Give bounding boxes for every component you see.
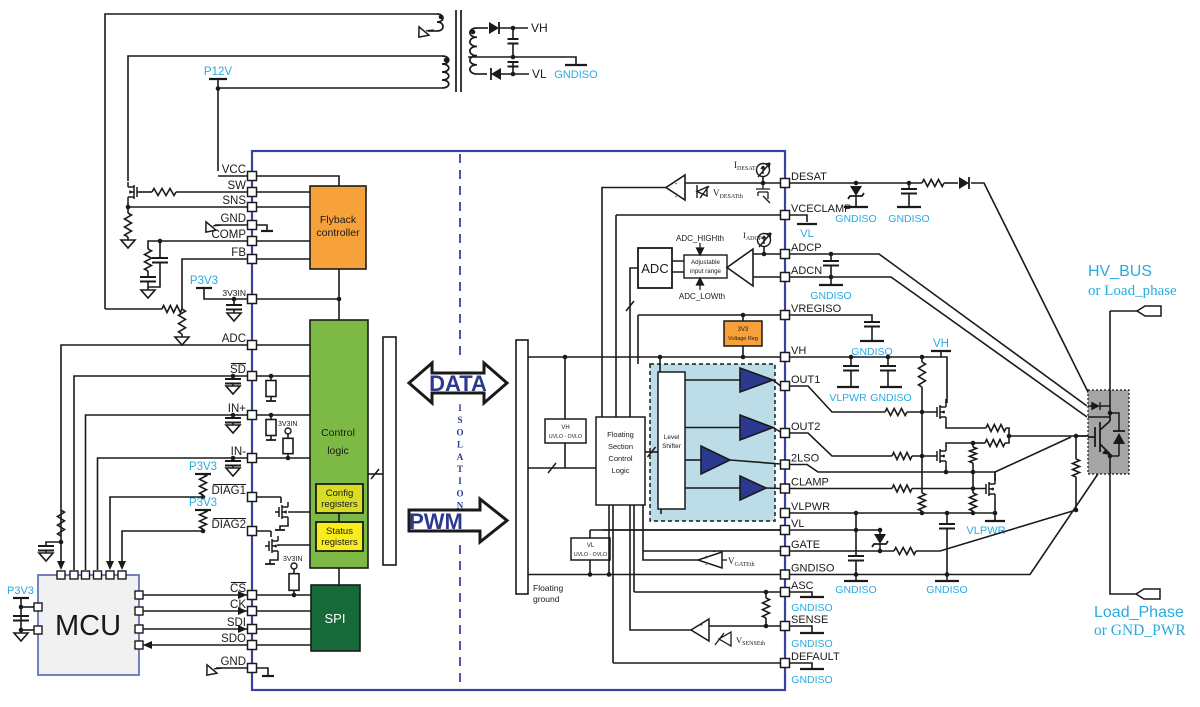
- MCU right pin 1: [135, 591, 143, 599]
- pin GNDISO: [781, 570, 790, 579]
- wire SPI signal: [256, 610, 311, 612]
- wire DEFAULT external: [790, 663, 813, 668]
- tick SD pulldown: [266, 400, 276, 402]
- threshold VGATEth tick: [722, 559, 727, 561]
- pin DIAG1: [248, 493, 257, 502]
- junction IN- pullup: [286, 456, 291, 461]
- wire DESAT comparator to FSCL: [602, 188, 666, 418]
- buffer 2LSO: [701, 446, 730, 474]
- buffer CLAMP: [740, 476, 766, 500]
- wire comp R to C: [147, 271, 149, 277]
- wire: [850, 357, 852, 366]
- pin OUT2: [781, 429, 790, 438]
- arrow ADC_HIGHth: [697, 243, 704, 255]
- bus slash ADC: [626, 301, 634, 311]
- wire VCC to flyback controller: [252, 176, 339, 186]
- junction OUT1: [920, 410, 925, 415]
- wire control logic to interface bar: [368, 473, 383, 475]
- junction VLPWR: [945, 511, 950, 516]
- wire: [45, 551, 47, 554]
- wire DESAT inside: [685, 182, 781, 184]
- junction: [607, 572, 612, 577]
- pin CK: [248, 607, 257, 616]
- wire GND to signal ground: [252, 225, 267, 231]
- wire DIAG2: [252, 530, 271, 532]
- wire VLPWR cap to GNDISO: [946, 533, 948, 575]
- transformer T1 secondary winding: [470, 28, 477, 74]
- wire M2 resistor to gate node: [1005, 436, 1009, 443]
- junction SNS: [126, 205, 131, 210]
- block floating section control logic: [596, 417, 645, 505]
- wire to MCU left pin1: [21, 606, 34, 608]
- junction COMP: [158, 239, 163, 244]
- block VL UVLO: [571, 538, 610, 560]
- wire: [1075, 477, 1077, 510]
- IGBT Q2: [1088, 413, 1110, 454]
- wire GATE comparator to FSCL: [643, 505, 698, 560]
- resistor M2 series: [985, 440, 1005, 447]
- transistor DIAG1 open drain: [279, 502, 288, 522]
- capacitor IN+ filter: [225, 418, 241, 423]
- svg-text:P3V3: P3V3: [189, 461, 217, 473]
- wire secondary center tap to GNDISO: [468, 57, 576, 64]
- junction: [741, 355, 746, 360]
- capacitor IN- filter: [225, 461, 241, 466]
- junction VL UVLO ground: [588, 572, 593, 577]
- wire DESAT to IGBT collector: [971, 183, 1089, 394]
- block status registers: [316, 522, 363, 551]
- junction: [886, 355, 891, 360]
- svg-text:O: O: [456, 427, 463, 437]
- wire ADCN to module: [790, 277, 1088, 417]
- wire SPI signal: [256, 628, 311, 630]
- block flyback controller: [310, 186, 366, 269]
- wire ADC into control logic: [252, 344, 310, 346]
- svg-text:logic: logic: [327, 445, 349, 457]
- wire VH UVLO down: [564, 443, 566, 468]
- svg-text:ADC: ADC: [641, 261, 668, 276]
- resistor OUT1 gate: [885, 409, 907, 416]
- wire to decoupling cap: [233, 299, 235, 305]
- wire FSCL to GNDISO row: [608, 505, 610, 575]
- wire VREGISO inside: [638, 314, 781, 316]
- junction M2 drain: [971, 441, 976, 446]
- wire config to status registers: [338, 513, 340, 522]
- MCU right pin 3: [135, 625, 143, 633]
- wire x922 upper: [921, 412, 923, 456]
- svg-text:-: -: [675, 192, 678, 201]
- junction ASC: [764, 590, 769, 595]
- wire VCECLAMP to FSCL: [615, 215, 617, 417]
- wire HV bus to collector: [1109, 311, 1111, 413]
- wire SNS to flyback controller: [252, 206, 310, 208]
- transistor DIAG2 open drain: [269, 536, 278, 556]
- wire VL row inside: [590, 529, 781, 531]
- svg-text:GNDISO: GNDISO: [791, 563, 835, 575]
- wire VCECLAMP external: [790, 215, 808, 222]
- node center tap: [511, 55, 516, 60]
- junction: [19, 605, 24, 610]
- wire M3 source: [994, 499, 996, 513]
- pin SDO: [248, 641, 257, 650]
- svg-text:GNDISO: GNDISO: [888, 213, 929, 225]
- svg-text:VH: VH: [561, 425, 569, 431]
- net flag VL: [797, 223, 817, 225]
- svg-text:Logic: Logic: [612, 466, 630, 475]
- junction DESAT: [761, 181, 766, 186]
- wire COMP parallel cap: [159, 241, 161, 258]
- net flag GNDISO ASC: [800, 596, 824, 598]
- rail flag VH: [931, 350, 951, 352]
- wire: [946, 529, 948, 534]
- wire to regulator: [742, 315, 744, 321]
- MCU right pin 2: [135, 607, 143, 615]
- junction: [19, 628, 24, 633]
- svg-text:Flyback: Flyback: [320, 214, 357, 226]
- resistor IN+ pulldown: [270, 415, 272, 440]
- svg-text:Shifter: Shifter: [662, 443, 682, 450]
- resistor FB lower: [179, 309, 186, 334]
- junction DESAT zener: [854, 181, 859, 186]
- junction VLPWR: [971, 511, 976, 516]
- wire: [202, 495, 204, 497]
- wire SPI bus: [143, 610, 248, 612]
- wire gate node to module: [1076, 435, 1088, 437]
- resistor VH bleed: [919, 362, 926, 387]
- wire 3V3IN: [252, 298, 339, 300]
- wire IN+ filter cap: [232, 415, 234, 418]
- svg-text:VREGISO: VREGISO: [791, 303, 842, 315]
- wire: [921, 511, 923, 513]
- comparator GATE monitor: [698, 552, 722, 568]
- resistor M1 series: [986, 425, 1006, 432]
- power flag P3V3 DIAG1: [195, 473, 211, 475]
- wire SENSE external: [790, 626, 813, 632]
- wire comp caps join: [148, 263, 160, 288]
- wire COMP to compensation: [148, 241, 252, 249]
- svg-text:S: S: [457, 415, 462, 425]
- wire FB to divider: [182, 259, 252, 309]
- wire to gate node: [1006, 428, 1009, 436]
- wire SPI signal: [256, 644, 311, 646]
- wire VL UVLO to floating ground: [589, 560, 591, 575]
- zener DESAT clamp: [848, 186, 864, 199]
- junction DIAG1 pullup: [201, 495, 206, 500]
- wire FB to flyback controller: [252, 258, 310, 260]
- resistor SD pulldown: [270, 376, 272, 401]
- svg-text:Control: Control: [321, 427, 355, 439]
- threshold VSENSEth symbol: [715, 632, 731, 646]
- bus slash level shifter: [648, 447, 656, 457]
- junction: [658, 355, 663, 360]
- wire 2LSO to gate node: [995, 437, 1071, 472]
- resistor gate node: [1073, 459, 1080, 477]
- wire VL row to VL UVLO: [589, 530, 591, 538]
- wire GND2 left: [216, 667, 252, 669]
- wire GNDISO to emitter: [790, 459, 1109, 575]
- wire secondary bottom to diode VL: [477, 73, 487, 75]
- wire VH rail inside: [528, 356, 781, 358]
- svg-text:L: L: [457, 440, 463, 450]
- svg-text:VL: VL: [532, 67, 547, 81]
- junction VLPWR: [854, 511, 859, 516]
- comparator ADC input: [727, 249, 753, 286]
- wire VLPWR/VL tie: [855, 513, 857, 556]
- terminal 3V3IN circle: [285, 428, 291, 434]
- block adjustable input range: [684, 255, 727, 278]
- junction gate node: [1074, 434, 1079, 439]
- capacitor VL decoupling: [848, 556, 864, 561]
- ground aux winding: [414, 21, 434, 41]
- junction: [878, 528, 883, 533]
- svg-text:CLAMP: CLAMP: [791, 477, 829, 489]
- svg-text:P3V3: P3V3: [190, 275, 218, 287]
- pin ADC: [248, 341, 257, 350]
- net flag GNDISO VREGISO: [860, 340, 884, 342]
- svg-text:registers: registers: [321, 537, 358, 548]
- wire VH to level shifter: [659, 357, 661, 372]
- wire DIAG2 to FET drain: [270, 531, 272, 537]
- net flag GNDISO VL cap: [844, 580, 868, 582]
- wire bleed to OUT1 row: [921, 387, 923, 412]
- MCU right pin 4: [135, 641, 143, 649]
- threshold VDESATth symbol: [697, 185, 709, 198]
- arrow PWM: [409, 499, 507, 542]
- capacitor ADC filter: [823, 261, 839, 266]
- svg-text:PWM: PWM: [409, 509, 463, 534]
- wire ASC row inside: [634, 591, 781, 593]
- wire to M1 gate: [907, 411, 937, 413]
- wire: [972, 463, 974, 472]
- wire ADC to MCU: [61, 345, 252, 561]
- junction collector: [1108, 411, 1113, 416]
- wire: [887, 357, 889, 366]
- wire level shifter to OUT2 buffer: [685, 427, 740, 429]
- svg-text:HV_BUS: HV_BUS: [1088, 263, 1152, 280]
- resistor FB upper: [162, 306, 182, 313]
- resistor CS pullup: [293, 569, 295, 595]
- junction: [849, 355, 854, 360]
- svg-text:GNDISO: GNDISO: [554, 69, 598, 81]
- net flag GNDISO VLPWR cap: [935, 580, 959, 582]
- svg-text:DESAT: DESAT: [791, 171, 827, 183]
- svg-text:VH: VH: [933, 338, 949, 350]
- svg-text:DIAG1: DIAG1: [211, 485, 246, 497]
- svg-text:VL: VL: [587, 543, 595, 549]
- wire IN+ into control logic: [252, 414, 310, 416]
- transistor M1 source follower: [937, 402, 946, 422]
- arrowhead right: [238, 607, 247, 615]
- wire zener: [879, 530, 881, 534]
- diode D2 VL rectifier: [491, 68, 501, 80]
- block control logic: [310, 320, 368, 568]
- svg-text:N: N: [457, 501, 464, 511]
- svg-text:3V3IN: 3V3IN: [222, 288, 246, 298]
- wire M1 source: [946, 422, 986, 428]
- block 3V3 voltage regulator: [724, 321, 762, 346]
- signal ground bar: [261, 230, 273, 232]
- junction GNDISO row: [854, 572, 859, 577]
- svg-text:ASC: ASC: [791, 580, 814, 592]
- wire GNDISO row: [528, 574, 781, 576]
- junction on SENSE row: [764, 624, 769, 629]
- MCU top pin 6: [118, 571, 126, 579]
- wire VREGISO external: [790, 315, 873, 322]
- svg-text:GNDISO: GNDISO: [791, 674, 832, 686]
- wire primary bottom to P12V node: [218, 87, 442, 89]
- resistor bleed to VLPWR: [919, 493, 926, 511]
- wire M1 drain stub: [945, 399, 947, 403]
- wire SNS sense: [128, 206, 252, 208]
- wire DIAG2 to MCU: [122, 531, 203, 561]
- diode DESAT blocking: [959, 177, 969, 189]
- arrowhead into MCU pin6: [118, 561, 126, 570]
- wire ADCP to module: [790, 254, 1088, 406]
- wire SW to flyback controller: [252, 191, 310, 193]
- junction IN- filter: [231, 456, 236, 461]
- svg-text:CK: CK: [230, 599, 246, 611]
- wire IN- to MCU: [98, 458, 253, 570]
- ground GND pin: [201, 216, 221, 236]
- wire COMP to flyback controller: [252, 240, 310, 242]
- pin SENSE: [781, 622, 790, 631]
- wire ASC external: [790, 592, 813, 596]
- wire FB lower to ground: [181, 334, 183, 337]
- transistor M2 pulldown: [937, 446, 946, 466]
- svg-text:input range: input range: [690, 268, 722, 275]
- svg-text:controller: controller: [316, 227, 360, 239]
- arrow ADC_LOWth: [697, 278, 704, 290]
- junction ADCP: [829, 252, 834, 257]
- pin VREGISO: [781, 311, 790, 320]
- MCU top pin 3: [82, 571, 90, 579]
- arrowhead into MCU pin1: [57, 561, 65, 570]
- aux winding polarity dot: [439, 15, 444, 20]
- arrowhead left: [143, 641, 152, 649]
- junction SD pulldown: [269, 374, 274, 379]
- pin GND: [248, 664, 257, 673]
- svg-text:registers: registers: [321, 499, 358, 510]
- svg-text:2LSO: 2LSO: [791, 453, 820, 465]
- wire: [972, 489, 974, 494]
- svg-text:GATE: GATE: [791, 539, 820, 551]
- wire SW to gate resistor: [176, 191, 252, 193]
- resistor gate Q1: [152, 189, 176, 196]
- junction OUT2 row: [920, 454, 925, 459]
- pin ASC: [781, 588, 790, 597]
- wire P12V to VCC pin: [218, 175, 247, 177]
- capacitor VH to GNDISO: [880, 366, 896, 371]
- net flag GNDISO ADCN: [819, 284, 843, 286]
- wire DIAG2 FET gate/source: [265, 546, 278, 564]
- bar floating section interface: [516, 340, 528, 594]
- capacitor 3V3IN decoupling: [226, 305, 242, 310]
- capacitor ADC filter: [38, 546, 54, 551]
- wire SPI bus: [143, 594, 248, 596]
- resistor R SNS shunt: [125, 213, 132, 237]
- pin COMP: [248, 237, 257, 246]
- pin DEFAULT: [781, 659, 790, 668]
- wire SPI signal: [256, 594, 311, 596]
- junction: [920, 355, 925, 360]
- svg-text:VH: VH: [791, 345, 806, 357]
- current source IDESAT: [757, 163, 771, 177]
- pin CS: [248, 591, 257, 600]
- wire: [946, 513, 948, 524]
- bus slash control logic: [371, 469, 379, 479]
- wire 2LSO buffer to pin: [730, 460, 781, 464]
- svg-text:SW: SW: [227, 180, 246, 192]
- net flag GNDISO DEFAULT: [800, 668, 824, 670]
- wire ADCN inside: [753, 276, 781, 278]
- block SPI: [311, 585, 360, 651]
- wire VL external: [790, 529, 881, 531]
- wire level shifter to VLPWR: [660, 509, 662, 514]
- wire: [879, 547, 881, 551]
- junction 3V3IN cap: [232, 297, 237, 302]
- wire ADCN to GNDISO: [830, 277, 832, 284]
- wire control logic to SPI: [338, 568, 340, 585]
- wire DIAG1 to FET drain: [280, 497, 282, 503]
- wire GATE external: [790, 550, 895, 552]
- wire: [994, 513, 996, 521]
- secondary polarity dot: [471, 30, 476, 35]
- svg-text:I: I: [458, 403, 462, 413]
- junction gate sense: [1074, 508, 1079, 513]
- wire ADCP inside: [753, 253, 781, 255]
- wire comp C: [147, 282, 149, 288]
- wire CLAMP buffer to pin: [766, 487, 781, 490]
- svg-text:GNDISO: GNDISO: [791, 638, 832, 650]
- comparator SENSE: [691, 619, 709, 641]
- wire M2 drain: [946, 443, 973, 447]
- pin CLAMP: [781, 484, 790, 493]
- wire OUT2 external: [790, 433, 893, 456]
- junction gate node feed: [1007, 434, 1012, 439]
- pin SW: [248, 188, 257, 197]
- wire divider to VIN: [105, 308, 162, 310]
- wire ADC to adjustable range: [672, 261, 684, 272]
- junction M2 source: [944, 470, 949, 475]
- MCU left pin 1: [34, 603, 42, 611]
- wire OUT2 buffer to pin: [773, 428, 781, 433]
- svg-text:or GND_PWR: or GND_PWR: [1094, 622, 1186, 639]
- junction IN+ pulldown: [269, 413, 274, 418]
- junction SD filter: [231, 374, 236, 379]
- wire OUT1 external: [790, 386, 886, 412]
- wire SENSE row inside: [709, 625, 781, 627]
- wire: [908, 183, 910, 189]
- wire primary top to flyback FET drain: [128, 56, 442, 181]
- svg-text:OUT2: OUT2: [791, 421, 820, 433]
- wire M3 drain: [994, 472, 996, 480]
- svg-text:GNDISO: GNDISO: [791, 602, 832, 614]
- wire SD into control logic: [252, 375, 310, 377]
- MCU top pin 1: [57, 571, 65, 579]
- net flag VLPWR M3: [985, 520, 1005, 522]
- block ADC: [638, 248, 672, 288]
- svg-text:OUT1: OUT1: [791, 374, 820, 386]
- pin SD: [248, 372, 257, 381]
- wire emitter to load phase: [1110, 456, 1136, 594]
- tick DIAG2 source: [265, 563, 275, 565]
- ground MCU supply: [14, 633, 28, 641]
- svg-text:GND: GND: [220, 656, 246, 668]
- wire VLPWR external: [790, 512, 996, 514]
- power flag P12V: [209, 78, 227, 80]
- junction ADCP: [762, 252, 767, 257]
- svg-text:Adjustable: Adjustable: [691, 259, 720, 266]
